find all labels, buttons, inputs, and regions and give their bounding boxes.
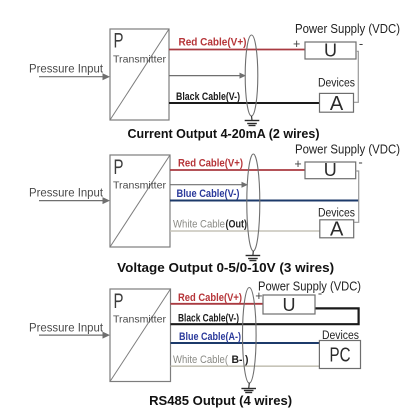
svg-text:Pressure Input: Pressure Input xyxy=(29,188,104,200)
svg-text:Devices: Devices xyxy=(318,78,355,90)
svg-text:White Cable(: White Cable( xyxy=(173,354,228,366)
svg-text:P: P xyxy=(114,156,124,179)
svg-text:U: U xyxy=(324,160,337,180)
svg-text:Current Output 4-20mA (2 wire: Current Output 4-20mA (2 wires) xyxy=(128,126,320,141)
svg-text:White Cable: White Cable xyxy=(173,219,225,231)
svg-text:A: A xyxy=(330,219,344,241)
svg-text:-: - xyxy=(358,155,362,170)
svg-text:Red Cable(V+): Red Cable(V+) xyxy=(178,158,243,170)
svg-text:U: U xyxy=(283,295,296,315)
svg-text:Pressure Input: Pressure Input xyxy=(29,323,104,335)
svg-text:-: - xyxy=(359,36,363,51)
svg-text:P: P xyxy=(114,30,124,53)
svg-text:PC: PC xyxy=(330,345,351,367)
svg-text:Power Supply (VDC): Power Supply (VDC) xyxy=(295,22,400,36)
svg-text:Blue Cable(V-): Blue Cable(V-) xyxy=(177,188,240,200)
svg-text:+: + xyxy=(293,37,300,51)
svg-text:+: + xyxy=(294,157,301,171)
svg-text:(Out): (Out) xyxy=(226,219,248,231)
svg-text:Black Cable(V-): Black Cable(V-) xyxy=(176,91,240,103)
svg-text:): ) xyxy=(245,354,249,366)
svg-text:Transmitter: Transmitter xyxy=(113,314,167,326)
svg-text:Power Supply (VDC): Power Supply (VDC) xyxy=(258,280,361,294)
svg-text:RS485 Output (4 wires): RS485 Output (4 wires) xyxy=(149,393,292,408)
svg-text:-: - xyxy=(318,286,322,301)
svg-text:Red Cable(V+): Red Cable(V+) xyxy=(179,37,247,49)
svg-text:U: U xyxy=(324,41,337,61)
svg-text:Black Cable(V-): Black Cable(V-) xyxy=(178,313,239,325)
svg-text:P: P xyxy=(114,290,124,313)
svg-text:B-: B- xyxy=(232,354,243,366)
svg-text:Voltage Output 0-5/0-10V (3: Voltage Output 0-5/0-10V (3 wires) xyxy=(117,260,334,275)
svg-text:Red Cable(V+): Red Cable(V+) xyxy=(178,292,242,304)
svg-text:A: A xyxy=(330,93,344,115)
svg-text:+: + xyxy=(255,289,262,303)
svg-text:Transmitter: Transmitter xyxy=(113,54,167,66)
svg-text:Power Supply (VDC): Power Supply (VDC) xyxy=(295,143,400,157)
svg-text:Transmitter: Transmitter xyxy=(113,180,167,192)
svg-text:Pressure Input: Pressure Input xyxy=(29,64,104,76)
svg-text:Blue Cable(A-): Blue Cable(A-) xyxy=(179,331,241,343)
